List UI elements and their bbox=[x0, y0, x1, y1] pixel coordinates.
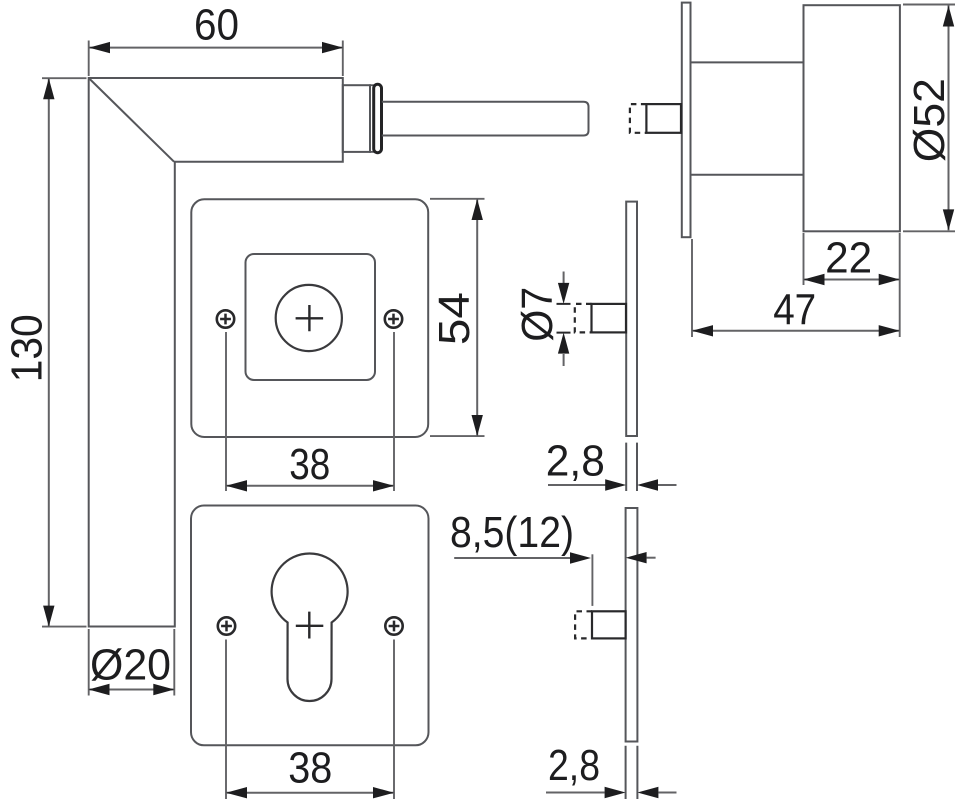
dim 47 arrows bbox=[692, 325, 713, 336]
dim 38 lower line bbox=[226, 792, 394, 794]
upper rosette screw left bbox=[217, 310, 234, 327]
svg-text:54: 54 bbox=[430, 292, 479, 345]
dim O20 arrows bbox=[89, 684, 110, 695]
dim 130 extension lines bbox=[42, 78, 87, 626]
dim 54 arrows bbox=[472, 199, 483, 220]
dim 47 line bbox=[692, 330, 900, 332]
dim O7 arrows bbox=[563, 272, 565, 367]
dim O52 line bbox=[948, 6, 950, 231]
upper plate break extension bbox=[626, 443, 637, 491]
round rosette plate (side view) bbox=[682, 3, 691, 238]
upper rosette inner square bbox=[246, 254, 376, 380]
lower spindle stub solid bbox=[592, 611, 626, 638]
handle hole circle bbox=[276, 285, 342, 351]
handle hole cross bbox=[296, 305, 324, 331]
svg-text:38: 38 bbox=[289, 440, 330, 489]
lower square-rosette plate (side view) bbox=[626, 508, 638, 742]
knob neck (side view) bbox=[692, 62, 804, 174]
dim 22 arrows bbox=[804, 274, 825, 285]
dim 38 lower arrows bbox=[226, 787, 247, 798]
neck step bbox=[343, 85, 370, 152]
dim 8,5(12) leader bbox=[454, 557, 572, 559]
keyhole cross bbox=[296, 612, 324, 639]
dim 22 line bbox=[804, 279, 900, 281]
knob spindle stub solid bbox=[646, 104, 681, 133]
dim 47 extension lines bbox=[692, 239, 900, 337]
dim 60 extension lines bbox=[89, 41, 343, 77]
dim 38 lower extension lines bbox=[226, 640, 394, 800]
svg-text:Ø20: Ø20 bbox=[90, 641, 171, 690]
dim O20 extension lines bbox=[89, 629, 175, 696]
dim O7 ticks bbox=[557, 304, 571, 333]
neck thin ring bbox=[370, 85, 374, 152]
svg-text:38: 38 bbox=[288, 744, 332, 793]
dim 2,8 upper arrows bbox=[548, 484, 677, 486]
dim 8,5(12) extension line bbox=[591, 554, 593, 606]
upper rosette outer square bbox=[191, 199, 428, 437]
lower rosette outer square bbox=[191, 506, 429, 746]
dim 2,8 lower arrows bbox=[546, 792, 677, 794]
svg-text:Ø7: Ø7 bbox=[513, 287, 562, 342]
svg-text:130: 130 bbox=[3, 314, 52, 382]
lever grip diagonal bbox=[89, 78, 174, 162]
lever handle outline (side view) bbox=[89, 78, 343, 627]
knob spindle stub dashed bbox=[630, 104, 647, 133]
knob body (side view) bbox=[804, 5, 900, 231]
dim 22 extension lines bbox=[804, 233, 900, 285]
dim 38 upper line bbox=[226, 485, 394, 487]
upper rosette screw right bbox=[385, 310, 402, 327]
lower rosette screw right bbox=[385, 617, 402, 634]
svg-text:Ø52: Ø52 bbox=[905, 78, 954, 162]
svg-text:8,5(12): 8,5(12) bbox=[450, 508, 574, 557]
lower plate break extension bbox=[626, 746, 638, 799]
dim 54 line bbox=[476, 199, 478, 436]
lower spindle stub dashed bbox=[575, 611, 592, 638]
spindle bbox=[382, 102, 589, 136]
dim 60 line bbox=[89, 47, 343, 49]
collar disc bbox=[374, 84, 382, 152]
lower rosette screw left bbox=[218, 617, 235, 634]
dim 54 extension lines bbox=[430, 199, 485, 436]
svg-text:47: 47 bbox=[773, 286, 816, 335]
dim O52 extension lines bbox=[903, 5, 955, 232]
svg-text:2,8: 2,8 bbox=[546, 437, 605, 486]
dim 8,5(12) second arrow bbox=[647, 557, 656, 559]
upper square-rosette plate (side view) bbox=[626, 202, 637, 436]
dim 38 upper arrows bbox=[226, 480, 247, 491]
svg-text:2,8: 2,8 bbox=[548, 741, 600, 790]
svg-text:60: 60 bbox=[194, 1, 239, 50]
svg-text:22: 22 bbox=[825, 234, 872, 283]
upper spindle stub dashed bbox=[575, 304, 592, 333]
dim 38 upper extension lines bbox=[226, 332, 394, 491]
dim 130 line bbox=[48, 78, 50, 626]
dim 60 arrows bbox=[89, 42, 110, 53]
dim 130 arrows bbox=[43, 78, 54, 99]
dim O52 arrows bbox=[943, 6, 954, 27]
cylinder keyhole bbox=[272, 554, 348, 701]
dim O20 line bbox=[89, 689, 175, 691]
upper spindle stub solid bbox=[592, 304, 627, 333]
